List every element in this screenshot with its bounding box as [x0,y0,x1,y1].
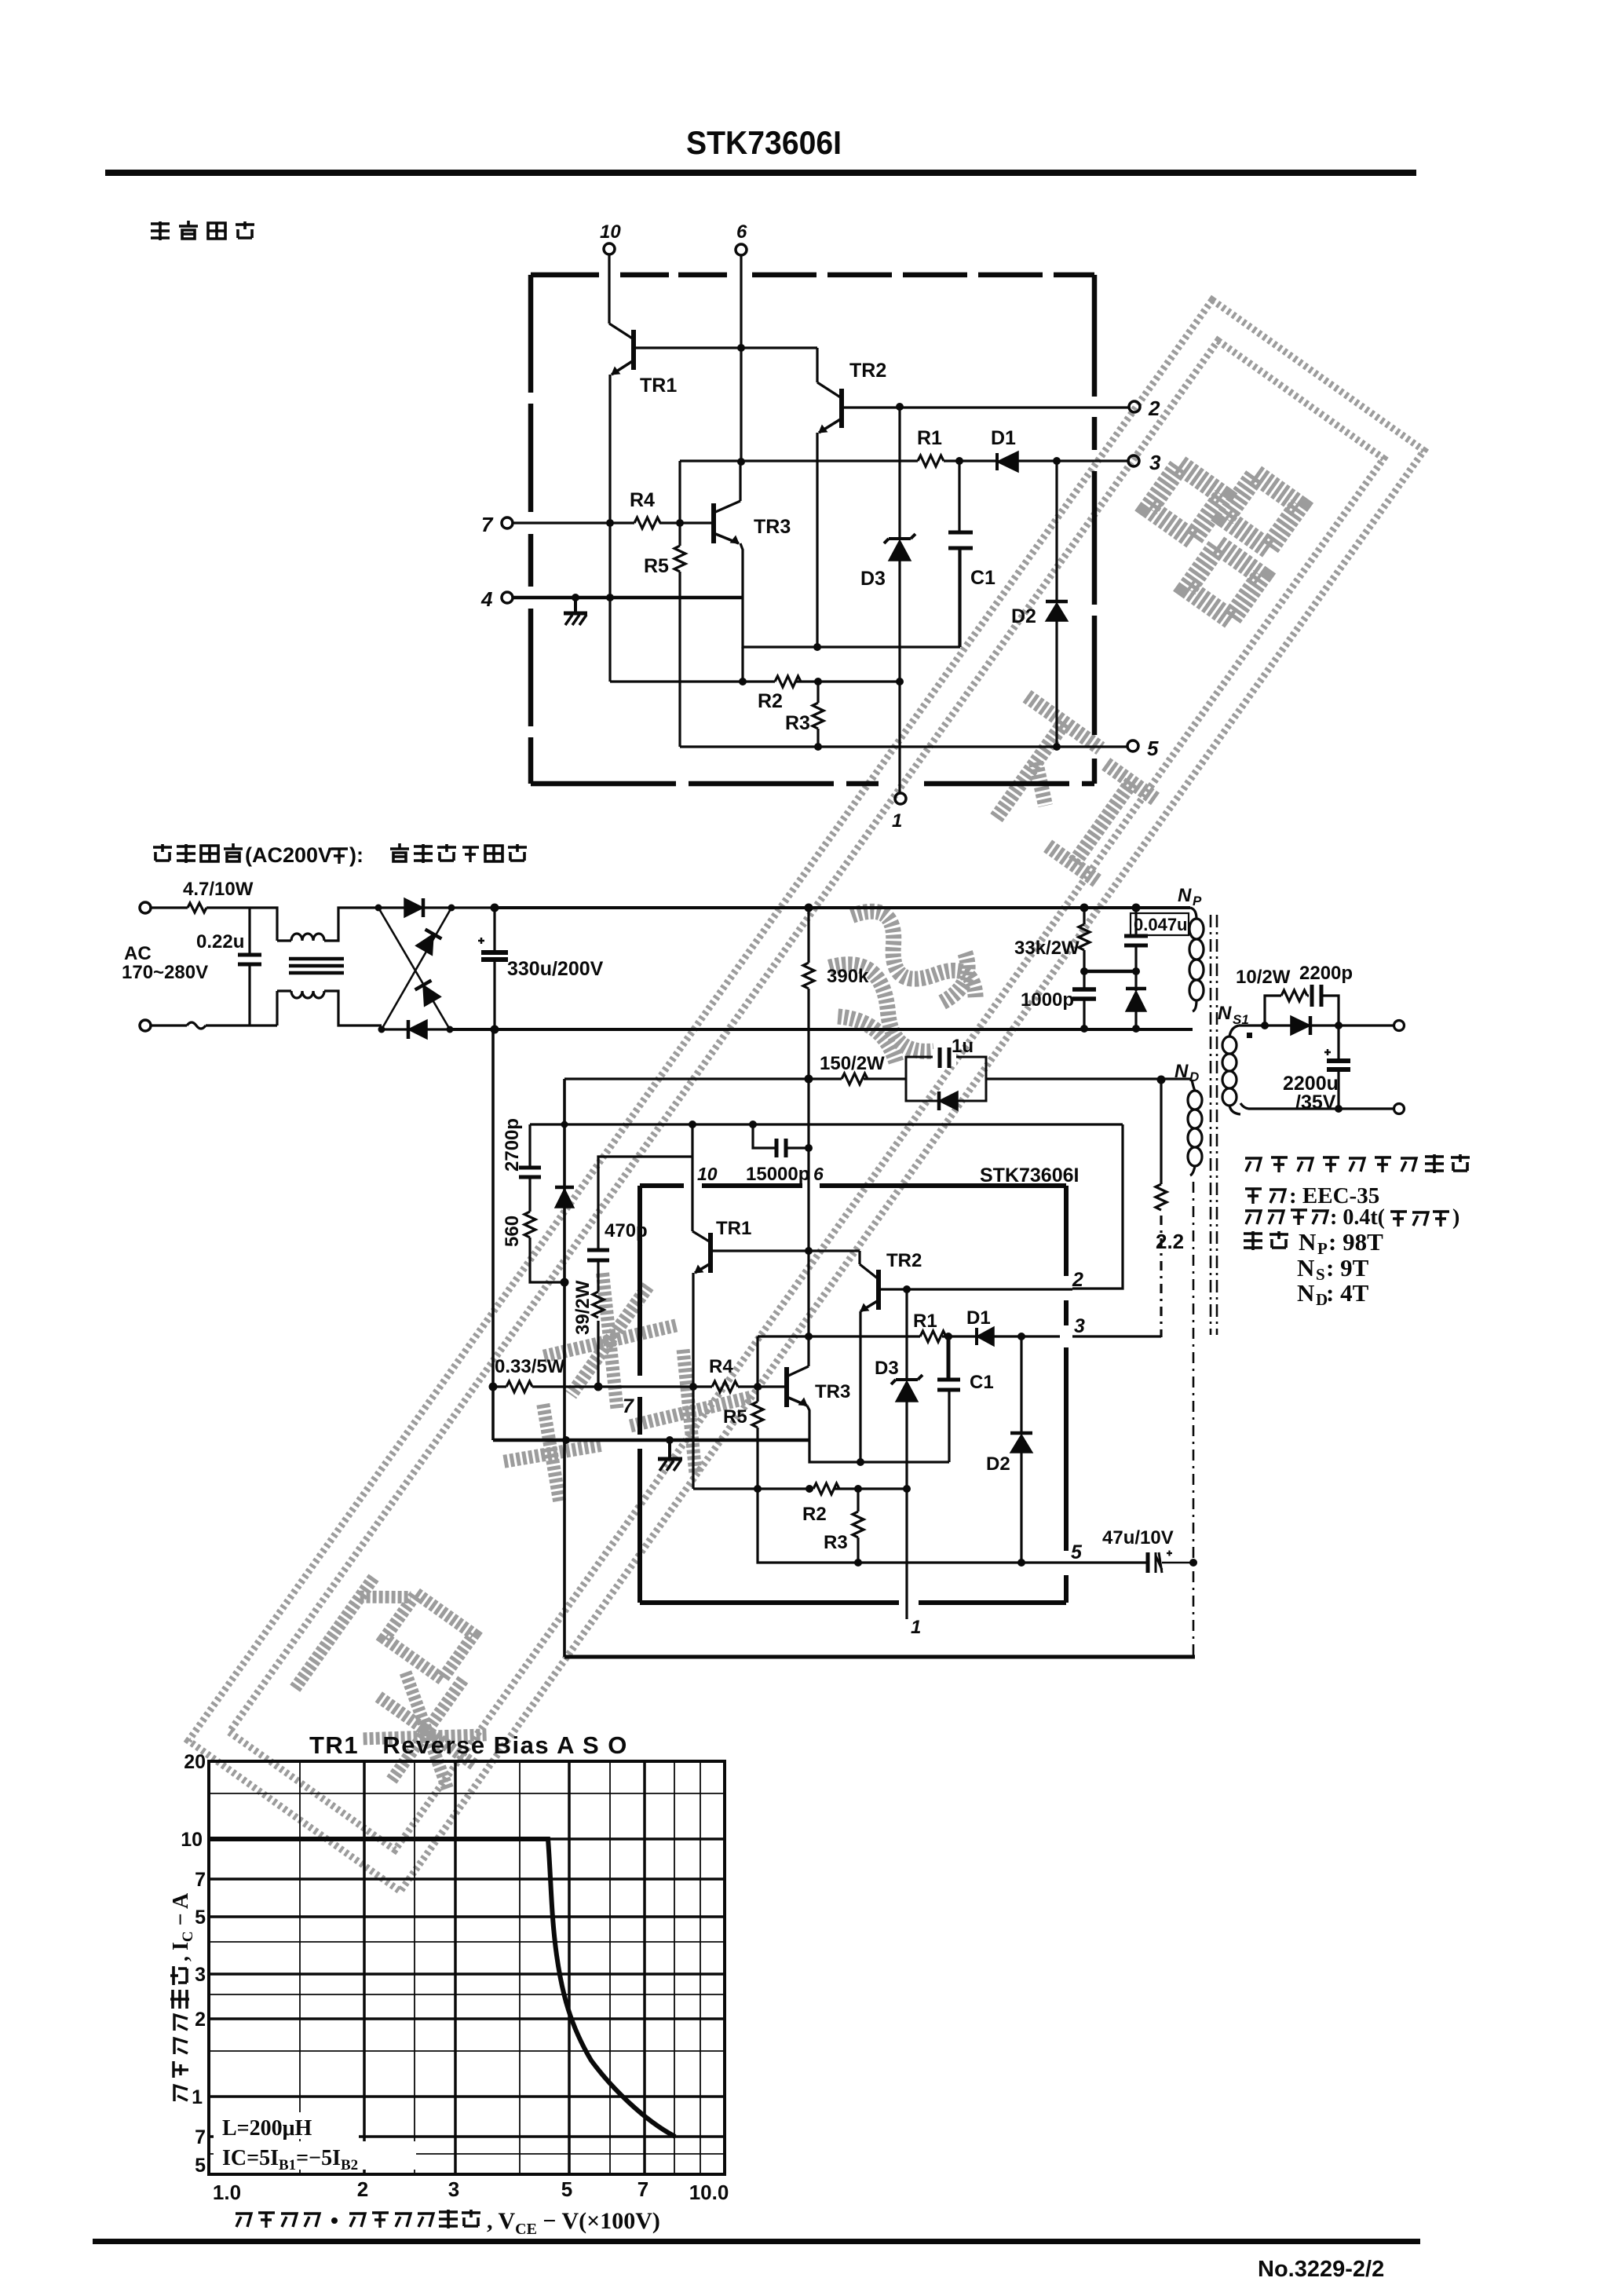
svg-text:2: 2 [357,2177,368,2201]
junction R3 bottom [814,743,822,751]
capacitor 47u/10V [1148,1551,1192,1574]
transistor TR2 [817,382,842,433]
junction 33k top [1080,904,1089,912]
svg-text:47u/10V: 47u/10V [1102,1527,1174,1548]
junction D2 bottom [1053,743,1061,751]
NS1 polarity dot [1247,1033,1252,1038]
junction 150/2W at 390k riser [805,1075,813,1084]
svg-text:: 0.4t(: : 0.4t( [1330,1205,1385,1230]
svg-text:No.3229-2/2: No.3229-2/2 [1258,2257,1384,2282]
ND rail (150/2W line) [564,1077,1192,1080]
svg-text:R4: R4 [709,1356,733,1377]
junction 1000p bottom [1080,1025,1088,1033]
junction 2200u bottom [1335,1105,1343,1113]
junction bridge- [491,1026,499,1034]
capacitor 2200p [1312,985,1321,1007]
pin 4 terminal [502,592,743,603]
diode D2 [1046,461,1068,747]
resistor R3 (vertical) [813,682,824,747]
svg-text:1000p: 1000p [1021,989,1074,1011]
svg-text:1.0: 1.0 [213,2181,241,2204]
svg-text:D2: D2 [1011,605,1036,627]
junction 0.047u top [1132,904,1141,912]
junction row right [1132,967,1140,975]
wire TR3 collector riser [739,462,741,501]
secondary output wire [1239,1024,1394,1026]
svg-text:5: 5 [1071,1541,1083,1563]
resistor 560 (vertical) [524,1212,564,1282]
svg-text:(AC200V: (AC200V [245,843,332,867]
svg-text:1: 1 [911,1617,921,1638]
svg-text:L=200μH: L=200μH [222,2116,312,2141]
junction D3 riser on R2 wire [896,678,904,686]
svg-text:2200p: 2200p [1299,963,1353,984]
resistor R5 app (vertical) [752,1387,763,1489]
capacitor 1u on box top [933,1047,956,1068]
svg-text:N: N [1299,1228,1316,1256]
pin 5 terminal [1127,740,1138,751]
svg-text:6: 6 [813,1164,824,1184]
svg-text:1: 1 [192,2086,203,2108]
watermark stamp (rotated, gray) [188,300,1424,1892]
svg-text:10: 10 [600,221,621,243]
junction snubber left [1261,1022,1269,1029]
snubber parallel box [906,1057,986,1101]
svg-text:5: 5 [561,2177,572,2201]
svg-text:7: 7 [481,513,494,536]
svg-text:R5: R5 [644,555,669,577]
svg-text:20: 20 [184,1751,206,1773]
junction D3 riser on pin2 wire [896,403,904,411]
resistor R1 [918,455,944,466]
svg-text:D3: D3 [875,1358,899,1379]
x axis tick labels [213,2177,729,2204]
node line TR3emit-C1bottom app [809,1391,949,1462]
junction ND node [1157,1076,1166,1084]
junction 15000p right [805,1144,813,1152]
pin3 wire app (R1, D1) [758,1335,1161,1337]
capacitor 2200u/35V [1324,1026,1350,1109]
svg-text:R2: R2 [802,1504,827,1525]
svg-text:R1: R1 [917,427,942,449]
capacitor 0.047u [1124,908,1148,971]
secondary bottom wire [1240,1103,1394,1109]
svg-text:7: 7 [623,1395,634,1417]
junction R3 top [814,678,822,686]
pin 3 wire with R1 and D1 [680,459,1128,462]
IC package outline (dashed box) [531,275,1094,784]
AC input terminal bottom [140,1020,151,1031]
wire TR1 emitter down app [692,1273,694,1489]
transformer primary Np winding [1189,908,1204,1011]
svg-text:4: 4 [480,587,493,611]
top rule [105,170,1416,176]
svg-text:AC: AC [124,943,152,964]
wire TR2 emitter down app [859,1311,861,1462]
diode D2 app [1010,1336,1032,1563]
wire R4 to TR3 base [659,521,712,524]
svg-text:D2: D2 [986,1453,1010,1475]
outer loop left edge [563,1079,566,1657]
svg-text:39/2W: 39/2W [572,1280,594,1335]
ground symbol [564,598,587,625]
ASO curve [209,1839,675,2137]
spec line 5 Ns 9T [1297,1254,1369,1284]
svg-text:: 98T: : 98T [1328,1228,1383,1256]
diode D1 [997,452,1018,472]
svg-text:10: 10 [181,1829,203,1851]
svg-text:2: 2 [1148,397,1160,420]
junction 560/diode [561,1278,569,1287]
pin7 feed line with 0.33/5W [493,1381,712,1392]
junction ground stub [572,594,579,601]
junction R5 bottom riser on R2 wire [754,1485,762,1493]
transistor TR3 app [787,1366,809,1407]
svg-text:10.0: 10.0 [689,2181,729,2204]
resistor R2 app [813,1483,839,1494]
spec line 4 turns Np 98T [1244,1228,1383,1258]
svg-text:6: 6 [736,221,747,243]
svg-text:D1: D1 [991,427,1016,449]
capacitor 2700p chain [519,1124,541,1212]
svg-text:3: 3 [448,2177,459,2201]
pin 7 terminal [502,517,634,528]
bridge diode top (right-pointing) [404,898,423,917]
svg-text:TR2: TR2 [849,360,886,382]
bridge bottom wire [382,1028,495,1030]
junction 15000p stub on node line [749,1121,757,1128]
svg-text:N: N [1218,1003,1232,1024]
heading application-circuit (kanji + AC200V) [153,843,527,867]
resistor R4 app [712,1381,785,1392]
resistor 390k (vertical) [803,908,814,1079]
svg-text:D3: D3 [860,568,886,590]
junction C1 riser app [944,1333,952,1340]
y axis tick labels [181,1751,206,2177]
svg-text:7: 7 [195,2126,206,2148]
pin 6 terminal [736,244,747,462]
svg-text:0.047u: 0.047u [1134,915,1188,934]
svg-text:: 4T: : 4T [1326,1279,1369,1307]
svg-text:C1: C1 [970,567,995,589]
svg-text:5: 5 [195,1907,206,1929]
resistor 150/2W [842,1073,868,1084]
junction TR1base/pin6 [737,344,745,352]
junction 390k top [805,904,813,912]
svg-text:2: 2 [1072,1269,1083,1291]
resistor R2 [775,676,801,687]
spec line 1 (katakana) [1245,1154,1470,1173]
D3 / pin1 riser [898,407,901,793]
bridge diagonal falling [378,908,450,1029]
svg-text:0.22u: 0.22u [196,931,244,952]
svg-text:R4: R4 [630,489,655,511]
svg-text:2: 2 [195,2009,206,2031]
junction D2 bottom app [1017,1559,1025,1567]
svg-text:S: S [1316,1265,1325,1284]
resistor 39/2W (vertical) [593,1292,604,1318]
spec line 6 Nd 4T [1297,1279,1369,1309]
svg-text:C1: C1 [970,1372,994,1393]
junction D3 riser on pin2 wire app [903,1285,911,1293]
svg-text:10: 10 [697,1164,718,1184]
svg-text:P: P [1193,894,1202,909]
svg-text:STK73606I: STK73606I [686,124,842,161]
svg-text:3: 3 [195,1964,206,1986]
capacitor 0.22u [238,908,261,1026]
pin 5 wire [680,745,1127,748]
svg-text:3: 3 [1149,451,1161,474]
svg-text:R2: R2 [758,690,783,712]
node line TR3emitter-C1bottom [743,548,960,647]
svg-text:3: 3 [1074,1315,1085,1337]
snubber diode (up) [1126,971,1146,1029]
junction TR2 emitter end [813,643,821,651]
junction 47u right end [1189,1559,1197,1567]
svg-text:7: 7 [195,1869,206,1891]
junction TR1 emitter riser on pin7 line [689,1383,697,1391]
bridge diagonal rising [382,908,451,1029]
wire pin3 corner down to base node [678,461,681,523]
bottom rule [93,2239,1420,2244]
junction pin6 on TR1 base [805,1247,813,1255]
junction snubber right [1335,1022,1343,1029]
AC input terminal top [140,902,151,913]
graph minor gridlines [209,1761,725,2174]
svg-text:): ) [1452,1205,1459,1230]
node line 2700p top [530,1123,1123,1125]
svg-text:D1: D1 [966,1307,991,1329]
snubber branch 10/2W + 2200p [1265,990,1339,1026]
svg-text:TR1 Reverse Bias A S O: TR1 Reverse Bias A S O [309,1731,628,1759]
svg-text:330u/200V: 330u/200V [507,958,604,980]
junction R5 top node [676,519,684,527]
capacitor 470p [587,1250,609,1260]
corner pin3 wire to R5 [756,1336,758,1387]
wire TR1 emitter down [608,375,611,682]
svg-text:, VCE − V(×100V): , VCE − V(×100V) [487,2208,660,2238]
wire TR3 emitter down app [807,1406,809,1440]
junction C1 riser on pin3 wire [955,457,963,465]
diode on left edge [555,1187,574,1208]
pin6 riser (390k to TR3 collector) [807,1079,809,1366]
svg-text:0.33/5W: 0.33/5W [495,1356,565,1377]
svg-text:TR1: TR1 [640,375,677,397]
pin2 riser outside [1072,1124,1123,1289]
spec line 2 core EEC-35 [1245,1183,1379,1208]
junction D2 riser on pin3 wire [1053,457,1061,465]
svg-text:: 9T: : 9T [1326,1254,1369,1281]
svg-text:15000p: 15000p [746,1164,809,1185]
svg-text:R3: R3 [785,712,810,734]
TR1 base wire app [712,1251,860,1264]
capacitor 1000p [1072,971,1096,1029]
svg-text:1u: 1u [952,1036,974,1057]
junction pin6/TR3coll on pin3 wire [805,1333,813,1340]
capacitor C1 [948,461,973,647]
bridge diode on rising diagonal [416,930,442,956]
pin 3 terminal [1128,455,1139,466]
junction main bus pin7 [489,1383,498,1391]
wire TR3 emitter down to pin4 bus [740,543,743,598]
wire TR1 base to TR2 collector, node at pin6 [635,348,817,382]
R2 wire app [693,1487,907,1490]
pin 10 terminal [604,243,615,324]
heading equivalent-circuit (kanji) [151,221,254,240]
junction TR1 emitter on pin7 wire [606,519,614,527]
svg-text:5: 5 [195,2155,206,2177]
svg-text:N: N [1297,1254,1314,1281]
spec line 3 gap 0.4t [1245,1205,1459,1230]
svg-text:R1: R1 [913,1311,937,1332]
svg-text:):: ): [349,843,363,867]
pin 1 terminal [895,793,906,804]
transistor TR2 app [860,1264,879,1311]
svg-text:R5: R5 [723,1406,747,1428]
text mask IC=5IB1 [214,2141,416,2170]
svg-text:5: 5 [1147,737,1159,760]
svg-text:TR3: TR3 [815,1381,850,1402]
wire TR3emitter riser lower [741,647,743,682]
wire TR2 emitter down [816,433,818,647]
diode in box (left-pointing) [939,1091,958,1110]
main left bus down from bridge [491,1029,495,1440]
text mask L=200uH [214,2112,359,2139]
capacitor 330u/200V [478,908,508,1029]
transformer NS1 winding [1222,1026,1240,1114]
main bus corner into ground bus [493,1439,809,1442]
junction R3 bottom app [854,1559,862,1567]
capacitor C1 app [937,1336,960,1390]
svg-text:, IC − A: , IC − A [169,1892,196,1961]
svg-text:150/2W: 150/2W [820,1053,885,1074]
bridge diode bottom (left-pointing) [408,1020,427,1039]
junction TR1 emitter on pin4 bus [606,594,614,601]
svg-text:1: 1 [892,810,902,832]
ground symbol app [658,1440,682,1471]
svg-text:TR1: TR1 [716,1218,751,1239]
junction TR1coll riser on node line [689,1121,696,1128]
junction row left [1080,967,1088,975]
svg-text:2.2: 2.2 [1156,1230,1184,1253]
graph major gridlines [209,1761,725,2174]
junction 470p chain bottom [594,1383,603,1391]
junction ground stub app [666,1436,674,1444]
resistor R1 app [920,1331,946,1342]
svg-text:N: N [1174,1061,1189,1082]
wire TR2 base to pin 2 [843,406,1129,408]
DC top rail [495,906,1190,909]
svg-text:N: N [1178,885,1192,906]
transformer ND winding [1188,1080,1202,1175]
junction TR3emit riser on R2 wire [806,1485,813,1493]
svg-text:STK73606I: STK73606I [980,1164,1079,1186]
svg-text:R3: R3 [824,1532,848,1553]
pin5 wire app [758,1489,1148,1563]
svg-text:7: 7 [637,2177,648,2201]
bridge rectifier [377,898,495,1039]
output terminal plus [1394,1021,1405,1031]
junction bridge corner dots [375,905,455,1033]
pin 2 terminal [1129,401,1140,412]
zener diode D3 app [891,1375,922,1402]
secondary rectifier diode [1291,1016,1310,1035]
DC bottom rail [450,1028,1193,1031]
junction D3 riser on R2 wire app [903,1485,911,1493]
wire to filter [250,908,277,941]
bottom input wire with link [151,991,277,1029]
graph frame [209,1761,725,2174]
svg-text:170~280V: 170~280V [122,962,208,983]
outer loop bottom edge [564,1655,1195,1659]
svg-text:33k/2W: 33k/2W [1014,938,1080,959]
svg-text:2700p: 2700p [502,1118,523,1172]
15000p cap plates [776,1139,786,1157]
470p/39-2W chain [598,1124,692,1384]
IC box outline (thick) [640,1186,1066,1603]
R2 wire [610,680,898,682]
x axis label (VCE - V x100V) [236,2208,660,2238]
svg-text:/35V: /35V [1295,1091,1336,1113]
ND return (dashy vertical) [1193,1182,1195,1657]
svg-text:TR2: TR2 [886,1250,922,1271]
fusible resistor 4.7/10W [151,903,250,912]
junction node line on outer edge [561,1121,568,1128]
bridge top wire [377,906,495,909]
bridge diode on falling diagonal [415,981,441,1007]
transistor TR1 app [692,1157,711,1273]
junction diode bottom [1132,1025,1140,1033]
pin2 wire app [880,1288,1072,1290]
D3 riser / pin1 stub app [905,1289,908,1619]
transistor TR3 [714,501,740,543]
junction D2 riser app [1017,1333,1025,1340]
wire 2.2 to pin3 (dashy) [1160,1216,1162,1337]
junction TR3emitter riser on R2 wire [739,678,747,686]
resistor R4 [634,517,660,528]
svg-text:N: N [1297,1279,1314,1307]
junction ground bus at outer edge [562,1436,570,1444]
resistor 2.2 (vertical) [1156,1080,1167,1210]
diode D1 app [977,1327,994,1346]
svg-text:560: 560 [502,1216,523,1247]
junction bridge+ [491,904,499,912]
zener diode D3 [884,534,915,561]
svg-text:10/2W: 10/2W [1236,967,1291,988]
transistor TR1 [609,324,634,375]
snubber node row [1084,970,1136,974]
junction R5 top app [754,1383,762,1391]
common mode choke [277,908,382,1026]
y axis label (collector current IC - A) [169,1892,196,2101]
svg-text:D: D [1189,1069,1199,1084]
resistor R3 app (vertical) [853,1489,864,1563]
junction pin6 riser on pin3 wire [737,458,745,466]
capacitor 15000p [753,1124,809,1157]
svg-text:4.7/10W: 4.7/10W [183,879,254,900]
resistor 33k/2W (vertical) [1079,908,1090,971]
svg-text:390k: 390k [827,966,869,987]
junction R3 top app [854,1485,862,1493]
transformer core (dash-dot) [1211,915,1217,1335]
output terminal minus [1394,1104,1405,1114]
svg-text:TR3: TR3 [754,516,791,538]
0.047u label boxed [1131,913,1189,935]
junction TR2 emitter end app [857,1458,864,1466]
resistor R5 (vertical) [674,523,685,747]
